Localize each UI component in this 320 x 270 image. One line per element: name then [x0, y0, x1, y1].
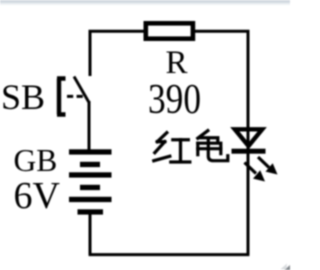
- battery GB cell bars: [69, 149, 112, 214]
- wire bottom rail: [89, 253, 250, 256]
- label 色 bottom 巴 component: [198, 140, 228, 161]
- svg-text:390: 390: [148, 77, 201, 123]
- resistor R: [146, 23, 193, 38]
- wire top-left segment: [90, 31, 145, 76]
- corner artifact: [285, 265, 291, 270]
- svg-text:SB: SB: [1, 77, 45, 117]
- wire switch-to-battery: [88, 101, 91, 152]
- wire battery-to-bottom: [89, 212, 92, 255]
- wire top-right segment: [194, 31, 249, 129]
- LED D1 light arrow lower: [245, 163, 266, 182]
- wire right rail lower: [247, 153, 250, 255]
- wire through LED: [247, 126, 250, 150]
- switch SB blade: [74, 77, 89, 103]
- label 红 (red) right part 工: [171, 140, 190, 162]
- switch SB actuator dashed link: [67, 95, 84, 98]
- LED D1 triangle: [235, 129, 262, 146]
- svg-text:R: R: [166, 45, 188, 81]
- label 红 (red) left radical: [154, 133, 170, 161]
- svg-text:6V: 6V: [14, 175, 61, 217]
- svg-text:GB: GB: [14, 143, 58, 178]
- LED D1 light arrow upper: [258, 157, 278, 175]
- label 色 top knife component: [198, 131, 218, 143]
- LED D1 cathode bar: [232, 149, 266, 154]
- switch SB push-button actuator bracket: [57, 79, 66, 115]
